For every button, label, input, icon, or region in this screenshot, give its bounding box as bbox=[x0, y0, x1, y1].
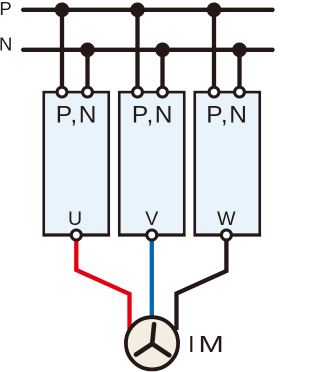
terminal circle U3 pin N bbox=[235, 87, 245, 97]
terminal circle U1 pin N bbox=[83, 87, 93, 97]
terminal circle V output bbox=[147, 230, 157, 240]
wire phase V (blue) bbox=[150, 236, 154, 318]
junction dot N bus / U1 bbox=[80, 43, 95, 58]
motor M1 rotor spoke lower-right bbox=[152, 344, 169, 356]
wire tap U1 N bbox=[85, 50, 89, 89]
motor M1 rotor spoke lower-left bbox=[136, 344, 152, 355]
svg-text:P: P bbox=[0, 0, 12, 19]
bus N wire bbox=[23, 48, 272, 52]
inverter box U1 bbox=[44, 92, 109, 235]
wire phase W (black) bbox=[177, 236, 227, 330]
wire tap U3 N bbox=[237, 50, 241, 89]
inverter box U2 bbox=[119, 92, 184, 235]
wire tap U1 P bbox=[60, 10, 64, 89]
bus P wire bbox=[23, 8, 272, 12]
wire tap U2 N bbox=[160, 50, 164, 89]
motor M1 body bbox=[126, 317, 178, 369]
wire tap U3 P bbox=[212, 10, 216, 89]
junction dot P bus / U3 bbox=[207, 3, 222, 18]
svg-text:P,N: P,N bbox=[132, 102, 173, 129]
bottom border U1 box bbox=[43, 233, 111, 236]
terminal circle U output bbox=[71, 230, 81, 240]
svg-text:M: M bbox=[198, 331, 224, 357]
svg-text:P,N: P,N bbox=[206, 102, 247, 129]
terminal circle U1 pin P bbox=[57, 87, 67, 97]
svg-text:U: U bbox=[68, 208, 82, 230]
junction dot P bus / U2 bbox=[130, 3, 145, 18]
junction dot N bus / U2 bbox=[155, 43, 170, 58]
junction dot N bus / U3 bbox=[232, 43, 247, 58]
svg-text:I: I bbox=[188, 331, 194, 357]
motor M1 rotor spoke up bbox=[152, 324, 154, 344]
bottom border U3 box bbox=[194, 233, 262, 236]
terminal circle U2 pin P bbox=[133, 87, 143, 97]
bottom border U2 box bbox=[118, 233, 186, 236]
svg-text:N: N bbox=[0, 33, 12, 54]
svg-text:V: V bbox=[145, 208, 158, 230]
inverter box U3 bbox=[195, 92, 260, 235]
svg-text:W: W bbox=[217, 208, 236, 230]
terminal circle U2 pin N bbox=[158, 87, 168, 97]
junction dot P bus / U1 bbox=[55, 3, 70, 18]
wire phase U (red) bbox=[76, 236, 129, 330]
terminal circle W output bbox=[221, 230, 231, 240]
svg-text:P,N: P,N bbox=[56, 102, 97, 129]
terminal circle U3 pin P bbox=[209, 87, 219, 97]
wire tap U2 P bbox=[135, 10, 139, 89]
